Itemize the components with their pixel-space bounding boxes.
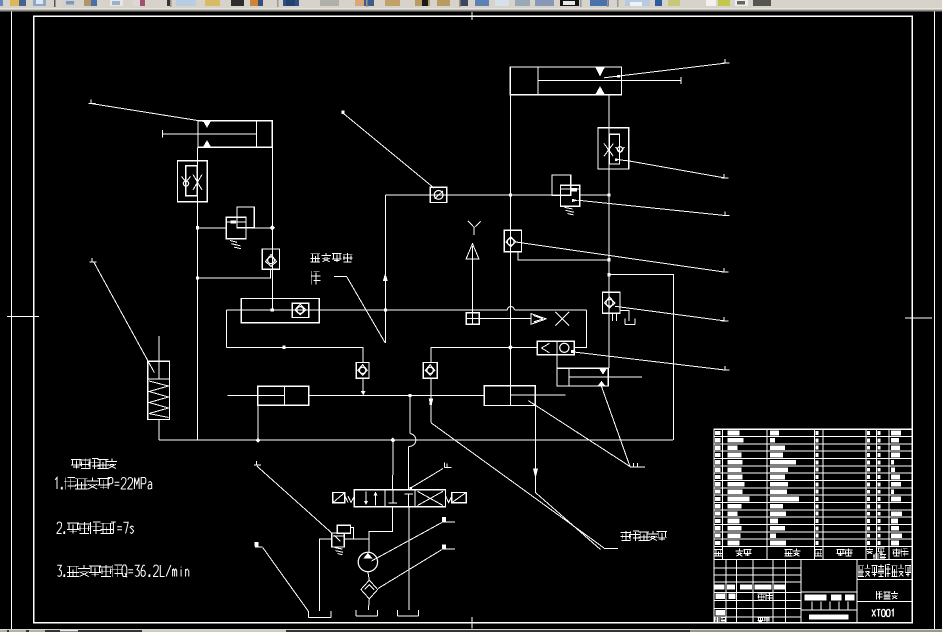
title area middle white bars xyxy=(804,595,826,601)
junction label ticks xyxy=(630,463,645,467)
pipe directional valve P to pump xyxy=(369,507,393,553)
pilot selector divider xyxy=(556,341,558,354)
spring accumulator divider xyxy=(148,378,170,380)
university name (pseudo CJK) xyxy=(858,566,864,577)
leader to tank 1 xyxy=(255,542,259,547)
cylinder 1 body (left landing-gear cylinder) xyxy=(198,121,272,148)
check valve B box xyxy=(423,363,437,379)
node on feed line xyxy=(282,346,285,349)
relief valve 3 pilot box xyxy=(337,525,350,533)
leader from valve block 3 to junction label xyxy=(528,401,630,467)
directional valve right solenoid box xyxy=(452,493,466,503)
pump pressure riser to directional valve xyxy=(392,440,394,490)
frame centering tick left xyxy=(7,316,39,318)
leader from check valve 3 to margin xyxy=(516,242,724,272)
directional valve right spring xyxy=(446,496,452,503)
spring accumulator spring zigzag xyxy=(149,381,169,418)
check valve 3 side stub to right riser xyxy=(518,252,609,260)
tank symbol 2 xyxy=(356,610,378,616)
check valve 2 box inside valve block 1 xyxy=(292,303,309,317)
flow arrow on work port pipe xyxy=(533,469,538,479)
toolbar background strip xyxy=(0,0,942,9)
check valve A box xyxy=(356,363,369,379)
leader to pump xyxy=(442,517,446,522)
junction node on left pipe at relief line xyxy=(196,226,199,229)
pilot selector circle xyxy=(560,343,569,352)
return manifold node at valve block 2 leg xyxy=(255,438,260,443)
valve block 2 leg to return manifold xyxy=(257,405,259,440)
work port pipe from valve block 3 to left landing gear xyxy=(535,493,600,550)
valve block 3 divider xyxy=(509,386,511,406)
check valve 2 poppet symbol xyxy=(295,304,306,315)
paper sheet right edge line xyxy=(934,11,936,629)
leader arrowhead up at cylinder 1 bottom xyxy=(203,140,211,147)
valve block 2 body xyxy=(258,386,309,405)
node on right riser at L drain xyxy=(607,273,610,276)
pilot line y=195 left segment xyxy=(385,194,552,196)
pilot arrow up symbol xyxy=(466,244,479,259)
relief valve 1 internal passage line xyxy=(226,221,246,223)
suction filter diamond xyxy=(361,580,378,599)
directional valve left solenoid box xyxy=(333,493,345,503)
pilot selector left arrow xyxy=(542,343,550,353)
leader from valve block 4 to junction label xyxy=(602,387,631,467)
check valve 4 ball symbol xyxy=(434,191,443,200)
title area filled revision row cells xyxy=(715,585,725,590)
check valve symbol in throttle assembly xyxy=(182,177,191,183)
relief valve 3 drain to tank 1 xyxy=(320,539,332,611)
directional valve right cell crossed arrows xyxy=(418,491,444,505)
check valve 5 poppet symbol xyxy=(604,297,615,308)
pilot line from relief valve 1 to right pipe xyxy=(246,227,273,229)
work port pipe from check valve B to left landing gear xyxy=(431,423,604,548)
pilot actuation line to arrow xyxy=(479,318,531,320)
valve block 4 mid passage with stub xyxy=(569,376,642,378)
leader line to spring accumulator xyxy=(90,258,97,262)
shuttle cross box xyxy=(466,313,479,324)
leader line from cylinder 2 to margin xyxy=(604,63,725,78)
relief valve 3 internal arrow xyxy=(333,536,343,542)
work port pipe down from valve block 3 xyxy=(534,406,536,493)
cylinder 1 rod end tick xyxy=(162,130,164,137)
pilot branch pipe down to dead end xyxy=(384,195,386,343)
check valve 5 drain stubs xyxy=(612,313,616,321)
mid pressure line left vertical connector xyxy=(226,310,228,347)
pipe from cylinder 1 rod-side chamber down xyxy=(197,147,199,440)
flow control assembly 2 outer box xyxy=(598,128,629,169)
check valve B poppet symbol xyxy=(425,365,435,376)
directional valve center cell blocked ports xyxy=(389,490,413,507)
relief valve 1 spring xyxy=(230,241,241,249)
leader from free-fall label to pipe end xyxy=(334,276,347,278)
valve block 4 divider xyxy=(568,368,570,386)
relief valve 1 internal blob xyxy=(231,221,237,224)
spring accumulator box xyxy=(148,361,170,419)
title area tiny labels xyxy=(758,593,765,600)
frame centering tick right xyxy=(905,317,932,319)
node on pilot line at main riser xyxy=(509,193,512,196)
valve block 3 body xyxy=(484,386,535,406)
pressure manifold middle segment xyxy=(309,394,485,396)
leader arrowhead down at cylinder 1 top xyxy=(203,121,211,128)
title block outer border xyxy=(714,429,912,622)
paper sheet left edge line xyxy=(11,11,13,629)
pilot check valve 5 box on right riser xyxy=(603,292,620,313)
directional valve cell dividers xyxy=(384,490,386,507)
node on pilot line at right riser xyxy=(607,193,610,196)
branch from check valve 1 to left pipe xyxy=(198,269,271,278)
drawing number text xyxy=(872,610,893,617)
cylinder 1 piston rod xyxy=(163,133,257,135)
node on main riser at pilot line xyxy=(509,193,512,196)
valve block 3 right cell passage and stub xyxy=(510,394,565,396)
adjustable throttle cross symbol 2 xyxy=(604,144,613,157)
title area middle sub-cells xyxy=(811,602,813,610)
node at pilot selector outlet xyxy=(571,350,574,353)
pilot line from node to relief valve 1 xyxy=(198,227,227,229)
leader from check valve 5 to margin xyxy=(615,306,724,321)
return manifold node at pump pressure riser xyxy=(390,438,395,443)
check valve 3 poppet symbol xyxy=(506,237,516,247)
flow arrow on pilot branch xyxy=(383,273,388,281)
check valve symbol 2 xyxy=(616,147,625,153)
relief valve 3 outlet to pump line xyxy=(344,538,368,540)
check valve 3 box on main riser xyxy=(504,230,521,251)
check valve 1 poppet symbol xyxy=(266,255,277,267)
node at check valve 1 outlet on mid line xyxy=(271,308,274,311)
feed line left segment to check valve A xyxy=(227,347,364,362)
leader to check valve 4 xyxy=(341,111,344,114)
title area left grid verticals xyxy=(725,559,727,622)
mid pressure line with crossover hop xyxy=(227,309,508,311)
leader line to cylinder 1 xyxy=(89,100,96,104)
flow control assembly 2 inner box xyxy=(609,134,619,164)
leader to filter xyxy=(442,544,446,549)
pipe cylinder 2 rod side down xyxy=(608,95,610,368)
leader from flow control 2 to margin xyxy=(615,158,618,161)
valve block 4 arrow down xyxy=(599,369,607,375)
cross blocked symbol xyxy=(555,312,569,326)
pipe from cylinder 1 head-side chamber down xyxy=(271,147,273,309)
BOM header labels (pseudo CJK blobs) xyxy=(715,549,723,556)
directional valve left cell flow arrows xyxy=(366,492,376,506)
pilot selector to valve block 4 stub xyxy=(556,355,558,369)
relief valve 2 internal passage line xyxy=(560,188,579,190)
drawing title (pseudo CJK) xyxy=(876,591,883,599)
frame centering tick bottom xyxy=(471,617,473,628)
L pipe from right riser to return manifold xyxy=(609,275,674,441)
filter internal mark xyxy=(365,585,375,590)
cylinder 2 piston rod xyxy=(538,80,681,82)
check valve 5 drain to small tank xyxy=(620,311,629,321)
node on right riser at side stub xyxy=(607,258,610,261)
node diamond on feed line at main riser xyxy=(508,345,513,350)
parameter line 3 xyxy=(57,565,64,576)
junction node on left pipe at check line xyxy=(196,276,199,279)
relief valve 3 body xyxy=(332,533,345,547)
relief valve 2 internal blob xyxy=(570,188,577,191)
leader from pilot selector to margin xyxy=(573,352,725,370)
title area left grid rows xyxy=(714,567,801,569)
junction diamond on head-side pipe xyxy=(270,225,275,230)
pump outlet triangle xyxy=(363,553,372,559)
leader arrowhead up at cylinder 2 mid xyxy=(595,86,605,95)
pilot operated check valve 1 box xyxy=(262,249,279,269)
valve block 4 body xyxy=(557,368,608,386)
node on pressure manifold at T riser xyxy=(409,394,412,397)
toolbar icons (cut off at top) xyxy=(0,0,3,6)
relief valve 3 spring xyxy=(335,548,344,555)
return manifold line xyxy=(159,439,673,441)
status strip background xyxy=(0,629,942,632)
frame centering tick top xyxy=(471,12,473,20)
check valve A poppet symbol xyxy=(358,365,368,376)
tank symbol 3 xyxy=(398,610,419,616)
feed line right segment to check valve B xyxy=(431,347,537,362)
cylinder 2 piston xyxy=(537,67,539,95)
relief valve 2 spring xyxy=(565,207,575,215)
check valve A outlet with arrow to manifold xyxy=(362,378,364,391)
BOM table column lines xyxy=(722,429,724,559)
filter to tank pipe xyxy=(367,599,370,610)
return line from directional valve T to tank 3 xyxy=(408,507,410,610)
node on mid line at pipe end xyxy=(384,308,387,311)
cylinder 2 body (right landing-gear cylinder) xyxy=(510,67,621,95)
leader from relief valve 2 to margin xyxy=(572,199,579,202)
pipe accumulator to return manifold xyxy=(158,420,160,441)
pilot selector valve body xyxy=(537,341,574,354)
valve block 1 (shuttle section) body xyxy=(241,299,319,323)
directional control valve body xyxy=(354,490,445,507)
cylinder 1 piston xyxy=(256,121,258,148)
tank symbol 1 xyxy=(309,611,331,617)
valve block 2 left cell passage xyxy=(258,394,285,396)
directional valve left spring xyxy=(345,496,354,503)
spring accumulator inlet stub xyxy=(158,336,160,379)
leader arrowhead down at cylinder 2 mid xyxy=(595,67,605,76)
parameter line 1 xyxy=(55,478,62,490)
pilot line from arrow down to shuttle box xyxy=(472,246,474,313)
relief valve 2 pilot box xyxy=(552,175,571,195)
BOM table data entries (white blobs) xyxy=(715,431,721,435)
relief valve 3 pilot stub xyxy=(351,528,354,540)
relief valve 1 pilot box xyxy=(237,207,254,228)
BOM table row lines xyxy=(714,436,912,438)
large hollow arrow xyxy=(531,314,546,325)
one-way throttle valve inner box xyxy=(186,166,197,196)
title area right column rows xyxy=(857,579,912,581)
flow arrow below manifold on check valve B pipe xyxy=(429,399,434,408)
valve block 4 arrow up xyxy=(598,381,606,386)
pump inlet pipe to filter xyxy=(368,572,369,580)
relief valve 1 square body xyxy=(226,217,246,239)
hydraulic pump circle xyxy=(358,552,377,571)
pipe cylinder 2 head side down (main riser) xyxy=(509,95,511,386)
mid line corner down to pilot selector xyxy=(574,310,586,348)
leader to relief valve 3 xyxy=(254,461,261,465)
pilot line y=195 right segment xyxy=(580,194,609,196)
valve block 2 divider xyxy=(283,386,285,405)
cylinder 2 rod end tick xyxy=(680,77,682,84)
one-way throttle valve assembly outer box xyxy=(178,161,208,202)
system parameters title (pseudo CJK) xyxy=(71,459,82,468)
check valve 4 box on pilot line xyxy=(430,187,446,202)
adjustable throttle cross symbol xyxy=(193,175,202,191)
relief valve 2 square body xyxy=(560,185,579,206)
T riser from pressure manifold with hop over return manifold xyxy=(409,395,411,433)
air drain Y symbol xyxy=(468,221,481,235)
title area small filled cells xyxy=(716,594,726,599)
leader to directional valve port xyxy=(445,464,452,468)
parameter line 2 xyxy=(57,522,65,534)
check valve B outlet pipe crossing manifold xyxy=(430,378,432,423)
pressure manifold left segment xyxy=(228,394,258,396)
